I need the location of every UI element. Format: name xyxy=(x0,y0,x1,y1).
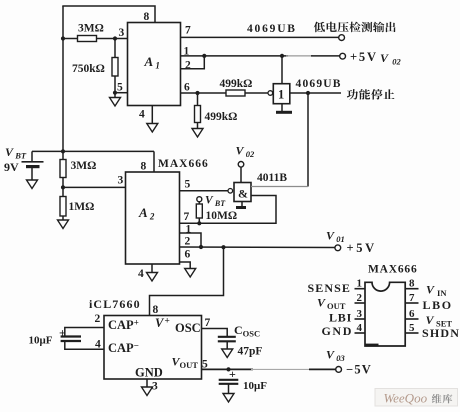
svg-text:8: 8 xyxy=(409,278,415,290)
pin lead 1 left xyxy=(355,288,366,290)
wire 1M vert xyxy=(62,187,64,220)
wire pin1 A1 xyxy=(181,55,289,57)
wire pin2 A1 xyxy=(181,56,205,69)
ground icl pin3 xyxy=(142,387,153,396)
wire pin6 A2 xyxy=(180,262,191,269)
wire pin5 V03 faint xyxy=(251,368,311,370)
svg-text:4069UB: 4069UB xyxy=(296,78,342,90)
svg-text:−5V: −5V xyxy=(346,363,372,377)
ground bar under inverter xyxy=(276,111,292,114)
svg-text:5: 5 xyxy=(409,322,415,334)
svg-text:+5V: +5V xyxy=(350,50,378,64)
label low voltage detect output xyxy=(314,22,396,33)
svg-text:SENSE: SENSE xyxy=(308,281,352,295)
wire 499k vert xyxy=(197,93,199,129)
ground Cosc xyxy=(222,349,233,358)
wire pin7 A2 loop xyxy=(180,196,277,224)
ground under 1M xyxy=(58,220,69,229)
wire gate output xyxy=(251,186,308,188)
pin lead 8 right xyxy=(405,288,418,290)
wire 3M to pin3 xyxy=(63,38,128,40)
wire A2 pin8 xyxy=(153,151,155,172)
junction 10M pin7 xyxy=(197,221,201,225)
svg-text:2: 2 xyxy=(357,292,363,304)
wire pin3 icl xyxy=(146,379,148,387)
wire pin5 A1 xyxy=(115,92,128,94)
watermark box xyxy=(375,389,458,407)
wire pin4 A2 xyxy=(151,264,153,273)
svg-text:2: 2 xyxy=(185,60,191,72)
svg-text:3: 3 xyxy=(357,308,363,320)
svg-text:6: 6 xyxy=(184,82,190,94)
wire pin1 A1 faint xyxy=(286,55,313,57)
wire pin5 A2 xyxy=(180,190,228,192)
resistor 499kohm vertical xyxy=(195,106,201,123)
svg-text:5: 5 xyxy=(185,179,191,191)
wire pin3 A2 xyxy=(63,186,126,188)
svg-text:4: 4 xyxy=(138,268,144,280)
svg-text:WeeQoo: WeeQoo xyxy=(384,391,428,406)
svg-text:10μF: 10μF xyxy=(29,335,53,347)
battery VBT xyxy=(22,151,44,180)
pin lead 6 right xyxy=(405,318,418,320)
resistor 3Mohm horizontal xyxy=(78,36,97,42)
svg-text:7: 7 xyxy=(409,292,415,304)
wire inverter gnd stem xyxy=(281,104,283,112)
junction pin1-pin2 A2 xyxy=(199,245,203,249)
terminal V03 xyxy=(336,367,342,373)
wire 3M vert xyxy=(62,151,64,187)
wire V01 to icl7660 xyxy=(150,247,224,315)
svg-text:4: 4 xyxy=(357,322,363,334)
resistor 750kohm xyxy=(112,58,118,77)
svg-text:1: 1 xyxy=(278,88,284,102)
svg-text:9V: 9V xyxy=(4,160,19,174)
wire V02 to gate xyxy=(240,167,242,183)
wire pin7 A1 xyxy=(181,36,339,38)
svg-text:LBI: LBI xyxy=(329,311,352,325)
wire left rail top xyxy=(62,6,64,152)
svg-text:SHDN: SHDN xyxy=(422,326,460,340)
op-amp A1 xyxy=(128,23,181,106)
capacitor 10uF pump xyxy=(61,337,81,342)
terminal V02 gate xyxy=(238,162,244,168)
capacitor Cosc 47pF xyxy=(218,337,236,342)
watermark weiku xyxy=(432,394,453,403)
wire outcap gnd xyxy=(228,384,230,394)
pin lead 3 left xyxy=(355,318,366,320)
svg-text:4011B: 4011B xyxy=(257,172,287,184)
svg-text:8: 8 xyxy=(141,161,147,173)
regulator A2 MAX666 xyxy=(126,172,180,264)
svg-text:499kΩ: 499kΩ xyxy=(220,78,253,90)
wire cosc gnd xyxy=(226,341,228,349)
svg-text:5: 5 xyxy=(117,82,123,94)
terminal V01 xyxy=(335,245,341,251)
svg-text:7: 7 xyxy=(184,211,190,223)
wire 10M to pin7 xyxy=(198,218,200,223)
resistor 1Mohm xyxy=(60,197,66,217)
label function stop xyxy=(347,89,395,100)
ground under 499k xyxy=(192,129,203,138)
wire inverter top to pin1 line xyxy=(281,56,283,84)
wire VBT to 10M xyxy=(198,202,200,204)
terminal low-voltage detect xyxy=(339,35,345,41)
junction V01 down xyxy=(221,245,225,249)
ground A2 pin4 xyxy=(147,273,158,282)
svg-text:750kΩ: 750kΩ xyxy=(72,63,105,75)
wire battery top xyxy=(32,150,154,152)
IC bottom-left tab xyxy=(366,344,379,347)
resistor 3Mohm vertical xyxy=(60,160,66,178)
junction 10uF out xyxy=(226,367,230,371)
svg-text:1: 1 xyxy=(357,278,363,290)
wire pin6 A1 xyxy=(181,92,268,94)
resistor 10Mohm xyxy=(196,204,202,218)
svg-text:4: 4 xyxy=(139,109,145,121)
pin lead 7 right xyxy=(405,302,418,304)
junction left rail pin3 xyxy=(61,36,65,40)
junction pin1-pin2 xyxy=(202,54,206,58)
svg-text:MAX666: MAX666 xyxy=(368,264,418,276)
wire pin1 A2 xyxy=(180,233,202,247)
svg-text:10μF: 10μF xyxy=(243,380,267,392)
svg-text:3: 3 xyxy=(118,175,124,187)
wire pin1 A1 b xyxy=(311,55,340,57)
svg-text:3MΩ: 3MΩ xyxy=(78,23,104,35)
svg-text:&: & xyxy=(238,187,248,201)
wire pin4 A1 xyxy=(151,106,153,124)
wire pin2 A2 xyxy=(180,246,335,249)
svg-text:1MΩ: 1MΩ xyxy=(69,201,95,213)
junction pin5 gnd xyxy=(113,91,117,95)
svg-text:6: 6 xyxy=(185,249,191,261)
svg-text:GND: GND xyxy=(322,324,353,338)
svg-text:2: 2 xyxy=(95,313,101,325)
svg-text:iCL7660: iCL7660 xyxy=(89,297,141,311)
svg-text:47pF: 47pF xyxy=(238,346,263,358)
nand gate 4011B xyxy=(234,183,251,202)
junction rail battery xyxy=(61,149,65,153)
wire pin2 icl xyxy=(65,328,104,337)
svg-text:+5V: +5V xyxy=(347,241,377,255)
resistor 499kohm horizontal xyxy=(226,90,245,96)
junction 750k top xyxy=(113,36,117,40)
ground under 750k xyxy=(110,98,121,107)
wire down to 4011 out xyxy=(307,93,309,187)
wire pin5 V03 b xyxy=(309,368,336,370)
ground out cap xyxy=(223,394,234,403)
junction pin1-inverter xyxy=(280,54,284,58)
inverter U1 4069UB xyxy=(273,84,290,104)
junction 3M-1M xyxy=(61,185,65,189)
svg-text:7: 7 xyxy=(205,317,211,329)
wire inverter out xyxy=(290,92,341,94)
wire pin4 icl xyxy=(65,341,104,349)
ground A1 pin4 xyxy=(147,124,158,133)
ground A2 pin6 xyxy=(185,269,196,278)
svg-text:+: + xyxy=(59,326,66,340)
wire pin7 icl xyxy=(202,329,228,337)
junction pin6 xyxy=(195,91,199,95)
svg-text:LBO: LBO xyxy=(423,298,453,312)
svg-text:6: 6 xyxy=(409,308,415,320)
svg-text:8: 8 xyxy=(144,11,150,23)
gate input bubble xyxy=(228,189,233,194)
pin lead 5 right xyxy=(405,332,418,334)
pin lead 4 left xyxy=(355,332,366,334)
inverter U1 bubble xyxy=(268,91,273,96)
wire gate gnd stem xyxy=(241,202,243,207)
svg-text:3MΩ: 3MΩ xyxy=(71,160,97,172)
capacitor 10uF out xyxy=(219,380,239,384)
svg-text:4069UB: 4069UB xyxy=(247,23,297,35)
svg-text:10MΩ: 10MΩ xyxy=(206,210,238,222)
converter U2 iCL7660 xyxy=(104,316,202,380)
wire 750k xyxy=(114,39,116,98)
svg-text:GND: GND xyxy=(135,366,163,380)
svg-text:3: 3 xyxy=(119,27,125,39)
svg-text:7: 7 xyxy=(185,25,191,37)
terminal +5V V02 xyxy=(340,53,346,59)
ground battery xyxy=(27,180,38,189)
pin lead 2 left xyxy=(355,302,366,304)
svg-text:8: 8 xyxy=(153,304,159,316)
svg-text:499kΩ: 499kΩ xyxy=(205,111,238,123)
wire A1 pin8 top xyxy=(62,6,155,23)
svg-text:MAX666: MAX666 xyxy=(158,158,209,170)
junction inverter out xyxy=(306,91,310,95)
svg-text:OSC: OSC xyxy=(175,321,201,335)
terminal VBT xyxy=(197,197,202,202)
wire pin5 icl to V03 xyxy=(202,368,254,370)
IC body MAX666 pinout xyxy=(365,282,405,346)
ground bar under gate xyxy=(236,206,246,209)
svg-text:2: 2 xyxy=(185,236,191,248)
